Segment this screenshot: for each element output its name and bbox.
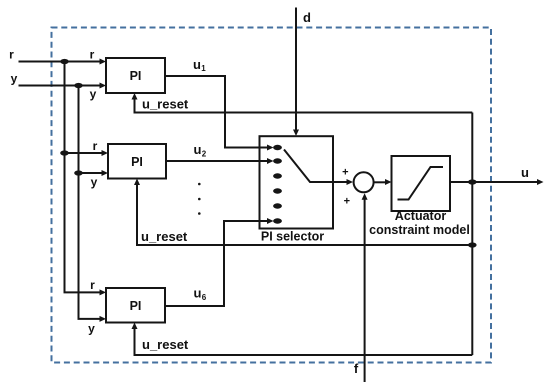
selector contact dots xyxy=(273,145,282,224)
wire r input line xyxy=(19,59,107,65)
svg-text:+: + xyxy=(342,167,348,179)
svg-text:2: 2 xyxy=(202,149,207,158)
wire u_reset PI3 xyxy=(132,323,473,356)
svg-text:PI: PI xyxy=(131,155,143,169)
svg-text:+: + xyxy=(344,196,350,208)
svg-text:constraint model: constraint model xyxy=(369,223,470,237)
wire u_reset PI2 xyxy=(134,179,472,246)
wire u6 route xyxy=(165,218,274,306)
summing junction xyxy=(354,172,374,192)
wire u_reset feedback vertical xyxy=(471,113,473,356)
node d input label xyxy=(303,10,311,25)
pin label y PI1 xyxy=(90,87,97,101)
svg-text:d: d xyxy=(303,10,311,25)
ellipsis dots between PI blocks xyxy=(198,183,201,215)
svg-text:u_reset: u_reset xyxy=(141,229,188,244)
wire y distribution vertical xyxy=(79,86,107,322)
svg-text:r: r xyxy=(90,278,95,292)
block PI 6 xyxy=(106,288,165,323)
wire r branch to PI2 xyxy=(65,150,109,156)
svg-text:PI selector: PI selector xyxy=(261,230,324,244)
pin label r PI3 xyxy=(90,278,95,292)
junction dot y line xyxy=(74,83,83,88)
node f input label xyxy=(354,361,359,376)
pin label y PI3 xyxy=(88,322,95,336)
block PI 2 xyxy=(108,144,166,179)
wire output u xyxy=(450,179,544,185)
label u_reset PI2 xyxy=(141,229,188,244)
svg-text:y: y xyxy=(88,322,95,336)
plus sign lower xyxy=(344,196,350,208)
svg-text:y: y xyxy=(11,72,18,86)
net label u1 xyxy=(193,57,206,73)
pin label y PI2 xyxy=(91,175,98,189)
wire summing junction to actuator xyxy=(374,179,392,185)
block PI 1 xyxy=(106,58,165,93)
junction dot r line xyxy=(60,59,69,64)
junction dot r branch PI2 xyxy=(60,150,69,155)
block actuator constraint model xyxy=(392,156,451,211)
wire u2 route xyxy=(166,158,274,164)
svg-text:u_reset: u_reset xyxy=(142,337,189,352)
saturation curve xyxy=(398,167,444,200)
svg-text:r: r xyxy=(9,48,14,62)
junction dot y branch PI2 xyxy=(74,170,83,175)
svg-text:y: y xyxy=(90,87,97,101)
wire y input line xyxy=(19,83,107,89)
svg-text:r: r xyxy=(93,139,98,153)
net label u6 xyxy=(194,286,207,303)
junction dot u_reset2 branch xyxy=(468,242,477,247)
label PI selector xyxy=(261,230,324,244)
svg-text:u: u xyxy=(193,57,201,72)
svg-text:1: 1 xyxy=(201,64,206,73)
pin label r PI1 xyxy=(90,48,95,62)
svg-text:u_reset: u_reset xyxy=(142,97,189,112)
svg-text:y: y xyxy=(91,175,98,189)
svg-text:u: u xyxy=(194,286,202,301)
wire u1 route xyxy=(165,76,274,151)
label u_reset PI1 xyxy=(142,97,189,112)
label actuator constraint model xyxy=(369,209,470,237)
dashed system boundary box xyxy=(52,28,492,363)
svg-text:r: r xyxy=(90,48,95,62)
svg-text:PI: PI xyxy=(130,69,142,83)
selector switch arm xyxy=(284,150,353,186)
pin label r PI2 xyxy=(93,139,98,153)
net label u2 xyxy=(194,142,207,158)
wire u_reset PI1 xyxy=(132,93,473,113)
wire f input line xyxy=(362,193,368,382)
plus sign upper xyxy=(342,167,348,179)
svg-text:f: f xyxy=(354,361,359,376)
node r input label xyxy=(9,48,14,62)
svg-text:u: u xyxy=(521,165,529,180)
wire y branch to PI2 xyxy=(79,170,109,176)
svg-text:u: u xyxy=(194,142,202,157)
node u output label xyxy=(521,165,529,180)
block PI selector xyxy=(260,136,334,228)
svg-text:PI: PI xyxy=(130,299,142,313)
junction dot output line xyxy=(468,179,477,184)
wire r distribution vertical xyxy=(65,62,107,296)
wire d input line xyxy=(293,8,299,137)
node y input label xyxy=(11,72,18,86)
svg-text:Actuator: Actuator xyxy=(395,209,447,223)
label u_reset PI3 xyxy=(142,337,189,352)
svg-text:6: 6 xyxy=(202,293,207,302)
